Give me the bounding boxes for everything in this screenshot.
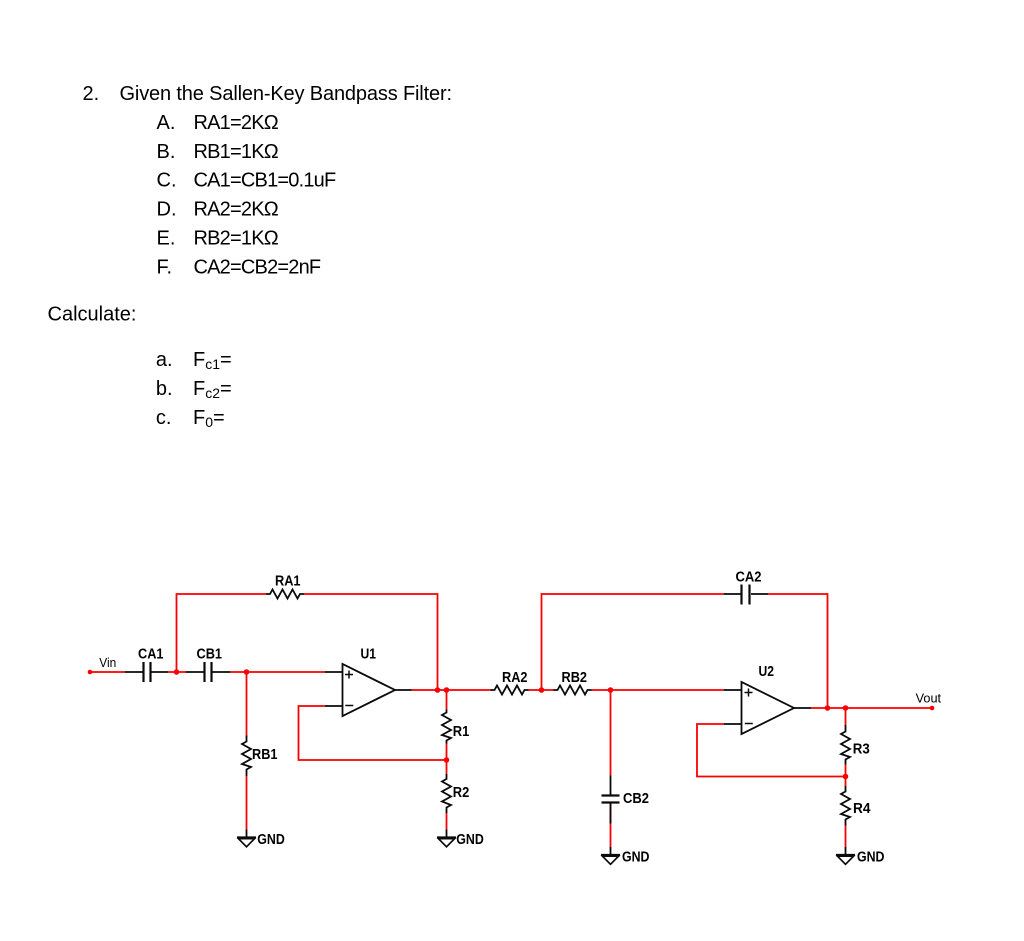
- svg-text:Given the Sallen-Key Bandpass: Given the Sallen-Key Bandpass Filter:: [120, 83, 452, 105]
- svg-text:Vout: Vout: [916, 691, 942, 705]
- svg-text:Fc2=: Fc2=: [193, 378, 232, 401]
- svg-text:RA2=2KΩ: RA2=2KΩ: [194, 199, 279, 221]
- svg-text:CB1: CB1: [197, 647, 223, 663]
- svg-text:GND: GND: [456, 832, 484, 848]
- svg-text:RA2: RA2: [502, 670, 528, 686]
- svg-text:Vin: Vin: [99, 656, 116, 670]
- svg-text:C.: C.: [157, 170, 177, 192]
- svg-text:CA1: CA1: [138, 647, 164, 663]
- svg-text:GND: GND: [622, 849, 650, 865]
- svg-text:RA1: RA1: [275, 574, 301, 590]
- svg-text:GND: GND: [257, 832, 285, 848]
- svg-text:Calculate:: Calculate:: [48, 304, 137, 326]
- svg-text:F.: F.: [157, 256, 173, 278]
- svg-text:RA1=2KΩ: RA1=2KΩ: [194, 112, 279, 134]
- svg-text:A.: A.: [157, 112, 176, 134]
- svg-text:RB2=1KΩ: RB2=1KΩ: [194, 228, 279, 250]
- svg-text:U1: U1: [361, 647, 377, 663]
- svg-text:CA2=CB2=2nF: CA2=CB2=2nF: [194, 256, 321, 278]
- svg-text:R2: R2: [453, 785, 470, 801]
- svg-text:F0=: F0=: [193, 407, 225, 430]
- svg-text:R4: R4: [853, 801, 871, 817]
- svg-text:D.: D.: [157, 199, 177, 221]
- svg-text:RB2: RB2: [562, 670, 588, 686]
- svg-text:CA1=CB1=0.1uF: CA1=CB1=0.1uF: [194, 170, 336, 192]
- svg-text:R1: R1: [453, 724, 470, 740]
- svg-text:c.: c.: [156, 407, 172, 429]
- svg-text:RB1=1KΩ: RB1=1KΩ: [194, 141, 279, 163]
- svg-text:2.: 2.: [83, 83, 100, 105]
- svg-text:U2: U2: [759, 664, 775, 680]
- svg-text:Fc1=: Fc1=: [193, 349, 232, 372]
- svg-text:B.: B.: [157, 141, 176, 163]
- svg-text:GND: GND: [857, 849, 885, 865]
- svg-text:CA2: CA2: [736, 570, 762, 586]
- svg-text:R3: R3: [853, 742, 870, 758]
- svg-text:E.: E.: [157, 228, 176, 250]
- svg-text:b.: b.: [156, 378, 173, 400]
- svg-text:CB2: CB2: [623, 791, 649, 807]
- svg-text:RB1: RB1: [252, 747, 278, 763]
- svg-text:a.: a.: [156, 349, 173, 371]
